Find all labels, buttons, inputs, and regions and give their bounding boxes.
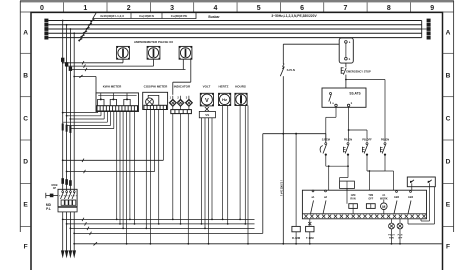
neutral tap to meters	[74, 76, 96, 78]
svg-text:SS.ATS: SS.ATS	[349, 92, 360, 96]
svg-text:C: C	[23, 116, 28, 123]
svg-text:C: C	[446, 116, 451, 123]
svg-text:AB2: AB2	[394, 195, 400, 199]
svg-text:4P: 4P	[53, 186, 56, 190]
kWh meter	[96, 93, 139, 112]
auxiliary contacts AB2 AB3	[396, 191, 398, 193]
indicator box RUN	[349, 204, 358, 209]
busbar specification label	[93, 12, 196, 18]
kWh meter wiring to CTs	[97, 111, 99, 113]
svg-text:a: a	[332, 103, 334, 105]
breaker terminal block	[58, 207, 77, 212]
frequency meter	[219, 93, 231, 105]
emergency stop unit	[339, 38, 353, 63]
svg-text:RUN: RUN	[350, 197, 355, 200]
CT tap junctions	[62, 62, 64, 64]
svg-text:HOURS: HOURS	[235, 85, 246, 89]
ammeter secondary wiring	[63, 62, 123, 64]
svg-text:OFF: OFF	[368, 197, 373, 200]
svg-text:VS: VS	[205, 113, 209, 117]
svg-text:HERTZ: HERTZ	[219, 85, 229, 89]
svg-text:S.PLN: S.PLN	[287, 68, 295, 72]
current transformer marks	[61, 58, 64, 62]
indicator box OFF	[366, 204, 375, 209]
remote terminal box	[407, 177, 435, 187]
svg-text:INDICATOR: INDICATOR	[174, 85, 191, 89]
svg-text:2: 2	[127, 5, 131, 12]
svg-text:5: 5	[257, 5, 261, 12]
voltage taps to meter	[62, 159, 64, 161]
svg-text:3x16(40)Ø L1,2,3: 3x16(40)Ø L1,2,3	[100, 14, 124, 18]
svg-text:VOLT: VOLT	[203, 85, 211, 89]
svg-text:1: 1	[170, 96, 172, 100]
bottom common line	[73, 243, 75, 245]
svg-text:E: E	[23, 202, 28, 209]
svg-text:A: A	[446, 30, 451, 37]
svg-text:0: 0	[40, 5, 44, 12]
emergency stop contact	[345, 63, 347, 67]
motor relay M	[381, 203, 388, 210]
svg-text:PB.OFF: PB.OFF	[362, 137, 372, 141]
voltmeter with selector switch	[200, 93, 213, 106]
disconnect switch S.PLN	[282, 64, 284, 67]
svg-text:RUN: RUN	[389, 237, 394, 239]
wire timer to indicator	[346, 189, 348, 204]
svg-text:AMPEREMETER PHASE XX: AMPEREMETER PHASE XX	[134, 40, 173, 44]
relay compartment terminal band	[302, 190, 426, 219]
busbar right terminals	[421, 21, 423, 38]
measurement bus lines	[62, 219, 64, 221]
svg-text:a2: a2	[324, 195, 327, 199]
ammeters P1 P2 P3	[117, 46, 130, 59]
svg-text:D: D	[446, 159, 451, 166]
automatic transfer switch SS.ATS	[322, 88, 366, 107]
svg-text:COS/PHI METER: COS/PHI METER	[144, 85, 169, 89]
pushbutton output wiring	[325, 155, 327, 167]
pilot lamps	[391, 219, 393, 223]
indicator lamps	[172, 96, 174, 100]
control wiring to pushbuttons	[335, 107, 337, 117]
svg-text:2: 2	[177, 96, 179, 100]
svg-text:T-12M: T-12M	[306, 236, 314, 240]
leader line to busbar	[79, 19, 94, 42]
svg-text:a: a	[349, 41, 351, 44]
feeder wires from busbar	[62, 20, 64, 22]
svg-text:Cu(40)Ø N: Cu(40)Ø N	[139, 14, 154, 18]
svg-text:4: 4	[213, 5, 217, 12]
svg-text:Busbar: Busbar	[208, 15, 220, 19]
current transformers on feeders	[62, 124, 64, 131]
svg-text:D: D	[23, 159, 28, 166]
svg-text:9: 9	[430, 5, 434, 12]
svg-text:B: B	[23, 73, 28, 80]
svg-text:b: b	[349, 58, 351, 61]
svg-text:6: 6	[300, 5, 304, 12]
svg-text:F: F	[446, 244, 450, 251]
svg-text:8: 8	[387, 5, 391, 12]
svg-text:B: B	[446, 73, 451, 80]
svg-text:P.L: P.L	[46, 207, 51, 211]
hertz meter wires	[222, 106, 224, 220]
svg-text:3~50Hz,L1,2,3,N,PE,380/220V: 3~50Hz,L1,2,3,N,PE,380/220V	[271, 14, 317, 18]
kWh meter output wires	[116, 111, 118, 219]
svg-text:F: F	[24, 244, 28, 251]
timer relay box	[340, 181, 355, 188]
svg-text:AB3: AB3	[408, 195, 414, 199]
outgoing feeder arrows	[62, 212, 64, 251]
cos-phi meter	[143, 92, 168, 109]
grid row dividers	[20, 52, 31, 54]
title-block column ticks	[63, 2, 65, 12]
busbar lines L1 L2 L3 N PE	[48, 20, 421, 22]
control feed rail	[263, 133, 326, 135]
svg-text:( S.SKE 3x4 ): ( S.SKE 3x4 )	[280, 180, 283, 196]
hour counter	[235, 93, 247, 105]
svg-text:A: A	[23, 30, 28, 37]
hours meter wires	[239, 106, 241, 220]
svg-text:1: 1	[83, 5, 87, 12]
indicator output wires	[172, 114, 174, 220]
svg-text:OFF: OFF	[398, 237, 403, 239]
fuse marks on feeders	[61, 178, 64, 184]
svg-text:Cu(30)Ø PE: Cu(30)Ø PE	[171, 14, 188, 18]
svg-text:b: b	[351, 103, 353, 105]
svg-text:EMERGENCY STOP: EMERGENCY STOP	[346, 69, 371, 73]
cos-phi meter output wires	[145, 110, 147, 229]
svg-text:a1: a1	[312, 195, 315, 199]
svg-text:E: E	[446, 202, 451, 209]
riser to control circuit	[262, 134, 264, 234]
circuit breaker Q1	[58, 189, 77, 206]
svg-text:PB.ON: PB.ON	[344, 137, 352, 141]
svg-text:Hz: Hz	[222, 97, 227, 102]
svg-text:S.REM: S.REM	[322, 137, 330, 141]
wire to emergency stop unit	[283, 43, 339, 45]
svg-text:3: 3	[170, 5, 174, 12]
svg-text:PILOT: PILOT	[388, 235, 395, 237]
auxiliary contact group a1 a2	[312, 190, 314, 192]
remote box wiring	[411, 183, 413, 190]
svg-text:PB.ON: PB.ON	[381, 137, 389, 141]
voltmeter selector wires	[201, 118, 203, 224]
control supply tap	[282, 44, 284, 64]
svg-text:R-12M: R-12M	[292, 236, 301, 240]
relay coil T-12M	[309, 219, 311, 227]
svg-text:7: 7	[343, 5, 347, 12]
drawing frame outer border	[20, 0, 454, 2]
svg-text:P.LN: P.LN	[398, 235, 403, 237]
busbar left terminals	[44, 19, 48, 23]
svg-text:KWH METER: KWH METER	[103, 85, 122, 89]
svg-text:M: M	[382, 205, 385, 209]
indicator terminal block	[171, 110, 192, 114]
relay coil R-12M	[295, 134, 297, 227]
svg-text:3: 3	[186, 96, 188, 100]
svg-text:V: V	[205, 98, 209, 104]
